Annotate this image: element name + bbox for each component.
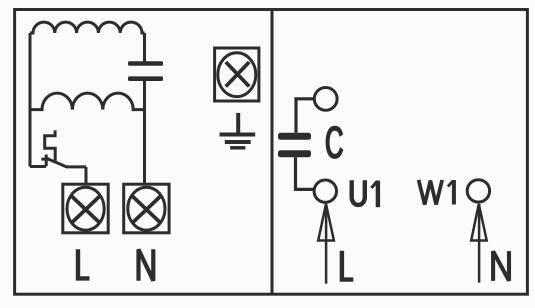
capacitor C (right) <box>278 133 311 157</box>
label W1 <box>419 180 454 205</box>
ground <box>220 113 256 148</box>
arrow into U1 (line L) <box>318 204 334 284</box>
label N (net N, right) <box>493 251 509 281</box>
label L (net L, right) <box>342 251 353 280</box>
wire: left rail from coil L1 down to switch <box>29 33 32 167</box>
wire: switch to lamp L <box>85 167 88 185</box>
lamp N (circle-X in square) <box>124 184 169 233</box>
wire: terminal to capacitor C <box>296 99 314 133</box>
terminal W1 (open circle) <box>467 180 489 202</box>
arrow into W1 (line N) <box>471 204 487 283</box>
switch S1 contact cross tick <box>41 155 50 167</box>
lamp (top centre, circle-X in square) <box>215 48 259 101</box>
wire: capacitor C1 bottom down to lamp N <box>143 81 146 185</box>
label N (below lamp N) <box>139 249 154 280</box>
lamp L (circle-X in square) <box>63 184 108 233</box>
switch S1 thermal actuator <box>45 130 56 162</box>
switch S1 blade <box>46 158 86 167</box>
label L (below lamp L) <box>78 249 90 278</box>
value label C <box>326 127 342 159</box>
switch S1 fixed contact wire <box>30 165 46 168</box>
wire: capacitor C to terminal U1 <box>296 157 314 189</box>
capacitor C1 (left block) <box>128 61 163 81</box>
inductor L1 (5-hump coil, top) <box>30 22 145 33</box>
terminal node (top right, open circle) <box>314 88 337 111</box>
terminal U1 (open circle) <box>314 180 336 202</box>
wire: coil L1 right end down to capacitor C1 <box>143 33 146 62</box>
inductor L2 (3-hump coil) <box>30 93 145 109</box>
label U1 <box>352 180 378 207</box>
